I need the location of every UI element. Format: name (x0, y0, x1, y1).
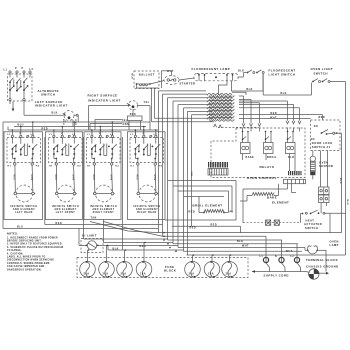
wire right light bottom into box (132, 109, 134, 116)
surface element R1 (LEFT REAR) (14, 185, 36, 202)
surface element R3 (RIGHT FRONT) (93, 185, 115, 202)
wire oven light switch to right edge (330, 82, 346, 256)
wire RED feeder bus y130 (8, 129, 159, 131)
svg-text:H2: H2 (77, 165, 81, 167)
svg-text:OVEN: OVEN (330, 239, 339, 243)
svg-text:SENSOR: SENSOR (319, 164, 333, 168)
wire lamp to switch (238, 73, 246, 78)
svg-text:RED: RED (54, 175, 56, 181)
oven control board dashed outline (211, 128, 305, 178)
wire RED to door lock (239, 115, 323, 120)
svg-text:P: P (22, 68, 24, 70)
svg-text:AND ELEMENT: AND ELEMENT (13, 208, 35, 211)
svg-text:RED: RED (211, 224, 218, 227)
wire bus y232.6 (159, 232, 342, 234)
wire harness verticals (8 conductors) (159, 91, 192, 251)
svg-text:BLU: BLU (17, 226, 23, 229)
svg-text:RED: RED (92, 175, 94, 181)
svg-text:BLU: BLU (62, 119, 64, 125)
ballast T1 (134, 71, 159, 89)
svg-text:L1: L1 (260, 256, 264, 258)
wires SW1 to element (15, 165, 33, 192)
svg-text:DOOR LOCK: DOOR LOCK (312, 141, 333, 145)
svg-text:DLB: DLB (288, 156, 294, 159)
svg-text:30A: 30A (83, 273, 89, 276)
svg-text:L2: L2 (291, 256, 295, 258)
wire switch loop rectangle (232, 75, 264, 92)
wire right light left lead (89, 106, 130, 131)
svg-text:H2: H2 (36, 165, 40, 167)
wire bus y246 (hi-limit) (108, 244, 178, 246)
connector P2 harness plug (208, 162, 228, 175)
wire ground arrow right (319, 272, 329, 275)
svg-text:CONTROLS. WIRING PROBLEMS: CONTROLS. WIRING PROBLEMS (7, 263, 50, 265)
wire twisted-bundle lattice (harness reordering) (207, 94, 234, 122)
wires SW4 to element (138, 165, 156, 192)
wire taps from feeder buses to infinite switch terminals (12, 121, 145, 135)
svg-text:3. SCHEMATIC PLEASE RETURN DIA: 3. SCHEMATIC PLEASE RETURN DIAGRAM (7, 246, 63, 249)
svg-text:BEFORE SERVICING UNIT.: BEFORE SERVICING UNIT. (7, 241, 42, 243)
label wire colors unit 1 (12, 175, 32, 181)
surface element R4 (RIGHT REAR) (137, 185, 159, 202)
wire bus y247.5 (178, 248, 305, 251)
svg-text:HEAT: HEAT (306, 218, 315, 222)
svg-text:DANGEROUS OPERATION.: DANGEROUS OPERATION. (7, 268, 42, 271)
svg-text:LABEL ALL WIRES PRIOR TO: LABEL ALL WIRES PRIOR TO (7, 256, 46, 259)
wire oven lamp right lead (317, 250, 326, 271)
wire starter to lamp (179, 78, 194, 80)
enclosure box unit 3 (84, 132, 121, 220)
svg-text:L1: L1 (87, 134, 91, 136)
svg-text:RED: RED (12, 175, 14, 181)
starter E1 (164, 76, 179, 85)
wire heat switch to right edge (325, 213, 346, 232)
wire ballast to starter (150, 81, 164, 85)
svg-text:STARTER: STARTER (180, 82, 196, 86)
wire left light drops (65, 115, 78, 126)
wire bus y251.2 (184, 250, 303, 252)
lamp DS1 left surface indicator light (63, 111, 79, 121)
label wire colors unit 3 (92, 175, 112, 181)
wire fluorescent switch drop to BLK bus (263, 74, 311, 95)
svg-text:RED: RED (319, 116, 326, 119)
svg-text:1. DISCONNECT RANGE FROM POWER: 1. DISCONNECT RANGE FROM POWER (7, 236, 58, 239)
connector J2 on oven control (288, 171, 302, 175)
wire bus y239 (84, 238, 168, 240)
relays K1-K3 (BAKE, BROIL, DLB) (241, 131, 296, 160)
label heat actuated switch (304, 218, 322, 230)
wire oven sensor to terminal strip (312, 175, 314, 179)
svg-text:BROIL ELEMENT: BROIL ELEMENT (193, 203, 223, 207)
svg-text:BAKE: BAKE (246, 156, 255, 159)
wire drop x186.5 to bus (187, 220, 189, 255)
wire inter-unit drop x122.5 (122, 137, 124, 250)
svg-text:30A: 30A (225, 273, 231, 276)
infinite switch SW3 (RIGHT FRONT) (87, 133, 121, 168)
wire YEL stub y119.5 (95, 120, 122, 131)
wire lamp drop into harness (219, 81, 228, 95)
connector plug arrows into oven control (242, 121, 301, 127)
wire bus y255 (187, 254, 346, 256)
svg-text:OVEN CONTROL: OVEN CONTROL (247, 176, 277, 180)
resistor bake element (252, 193, 274, 196)
svg-text:RED: RED (135, 175, 137, 181)
svg-text:LIGHT SWITCH: LIGHT SWITCH (269, 72, 296, 76)
svg-text:AND ELEMENT: AND ELEMENT (54, 208, 76, 211)
lamp DS2 right surface indicator light (127, 101, 138, 110)
caption unit 2 (52, 206, 79, 214)
svg-text:YEL: YEL (144, 101, 150, 104)
chassis ground G1 symbol (309, 269, 319, 279)
wire supply to ground (306, 272, 310, 273)
switch S5 heat actuated switch contacts (302, 210, 325, 214)
wire right light right lead (137, 106, 150, 131)
svg-text:LEFT FRONT: LEFT FRONT (56, 212, 76, 214)
connector block (door lock relay contacts) (319, 187, 330, 203)
label wire colors unit 2 (54, 175, 74, 181)
svg-text:P: P (20, 133, 22, 135)
lamp DS4 oven lamp (307, 246, 318, 254)
wire inter-unit drop x83.5 (83, 137, 85, 239)
svg-text:NC: NC (311, 139, 315, 141)
svg-text:L1: L1 (49, 134, 53, 136)
svg-text:N: N (275, 256, 277, 258)
label OVEN LAMP (330, 239, 339, 247)
svg-text:ORN: ORN (30, 175, 32, 181)
wire feeder bus y126.5 (14, 126, 146, 128)
wire slant unit3b to bus (104, 222, 163, 237)
svg-text:INFINITE SWITCH: INFINITE SWITCH (10, 206, 37, 208)
wire hi-limit left lead (79, 229, 86, 246)
svg-text:ORN: ORN (123, 123, 130, 126)
switch S1 'alternate switch' assembly with terminals L1/P/P/L2 (4, 68, 34, 101)
wire ballast left lead down (136, 84, 138, 88)
wire bus y250 BLK (108, 249, 184, 251)
wire junction box drops (129, 121, 141, 130)
wire to oven light switch (311, 83, 313, 96)
svg-text:H1: H1 (49, 165, 53, 167)
svg-text:RIGHT REAR: RIGHT REAR (137, 211, 157, 214)
svg-text:(B): (B) (229, 211, 234, 213)
svg-text:BLK: BLK (281, 92, 287, 95)
wire WHT harness run (239, 117, 311, 119)
svg-text:BLK: BLK (52, 111, 58, 114)
wires SW3 to element (94, 165, 112, 192)
wires under relays (243, 154, 296, 172)
enclosure box unit 2 (46, 132, 83, 220)
svg-text:TERMINAL BLOCK: TERMINAL BLOCK (306, 258, 338, 262)
svg-text:20A: 20A (120, 273, 126, 276)
svg-text:CHASSIS GROUND: CHASSIS GROUND (306, 264, 339, 268)
svg-text:BLK: BLK (238, 70, 244, 73)
svg-text:BLK: BLK (131, 74, 133, 80)
fluorescent lamp DS3 tube (194, 74, 238, 81)
svg-text:2. REFER ONLY TO FEATURES EQUI: 2. REFER ONLY TO FEATURES EQUIPPED. (7, 243, 63, 246)
switch S3 oven light switch contacts (312, 79, 330, 83)
label FUSE BLOCK (164, 265, 176, 273)
svg-text:L1: L1 (7, 134, 11, 136)
svg-text:RED: RED (271, 112, 278, 115)
svg-text:HI LIMIT: HI LIMIT (82, 234, 97, 238)
svg-text:INFINITE SWITCH: INFINITE SWITCH (90, 206, 117, 208)
svg-text:SWITCH #1: SWITCH #1 (312, 145, 331, 149)
infinite switch SW1 (LEFT REAR) (7, 133, 41, 168)
wire left edge drop (2, 122, 4, 229)
svg-text:BLK: BLK (346, 200, 348, 206)
svg-text:WHT: WHT (167, 70, 174, 73)
label alternate switch (38, 89, 60, 97)
arrow to range (alternate switch output) (12, 102, 15, 112)
wire: alt-switch to left indicator light (24, 101, 63, 115)
svg-text:RED: RED (42, 127, 49, 130)
wire inter-unit drop x44.8 (44, 137, 46, 225)
wire ballast feed y88 (137, 87, 159, 89)
svg-text:CAN CAUSE IMPROPER AND: CAN CAUSE IMPROPER AND (7, 265, 45, 268)
label right surface indicator light (88, 94, 121, 103)
svg-text:AND ELEMENT: AND ELEMENT (92, 208, 114, 211)
infinite switch SW4 (RIGHT REAR) (130, 133, 164, 168)
svg-text:RED: RED (140, 245, 147, 248)
svg-text:OVEN LIGHT: OVEN LIGHT (311, 67, 334, 71)
svg-text:RED: RED (190, 226, 197, 229)
svg-text:P: P (15, 68, 17, 70)
wire door lock to connector block (321, 151, 328, 188)
svg-text:FLUORESCENT LAMP: FLUORESCENT LAMP (192, 67, 231, 71)
svg-text:BLK: BLK (339, 178, 341, 184)
wire door lock C to right drop (335, 133, 342, 232)
infinite switch SW2 (LEFT FRONT) (49, 133, 83, 168)
svg-text:LEFT REAR: LEFT REAR (15, 211, 33, 214)
svg-text:RELAYS: RELAYS (260, 165, 275, 169)
label OVEN SENSOR (319, 160, 333, 168)
wire BLU feeder bus y122 (3, 121, 150, 123)
svg-text:YEL: YEL (122, 119, 128, 122)
wires from oven control terminal strip down (243, 184, 296, 223)
wire drop x103.5 (103, 220, 105, 243)
enclosure box unit 1 (4, 132, 43, 220)
wire oven lamp left lead (305, 249, 308, 251)
wire connector block down (321, 203, 326, 214)
wire heat switch left lead (301, 214, 302, 223)
svg-text:BROIL: BROIL (267, 156, 277, 159)
svg-text:BLK: BLK (237, 240, 243, 243)
svg-text:INDICATOR LIGHT: INDICATOR LIGHT (35, 104, 68, 108)
svg-text:INFINITE SWITCH: INFINITE SWITCH (133, 206, 160, 208)
svg-text:P: P (61, 133, 63, 135)
wire oven sensor top to door lock area (312, 151, 314, 157)
terminal strip TB2 under oven control (284, 179, 306, 183)
svg-text:SWITCH: SWITCH (314, 71, 328, 75)
surface element R2 (LEFT FRONT) (55, 185, 77, 202)
inline connectors on heat switch run (266, 220, 280, 225)
svg-text:LAMP: LAMP (330, 243, 339, 247)
svg-text:H1: H1 (8, 165, 12, 167)
svg-text:L1: L1 (4, 69, 8, 72)
wire bus y240 (168, 240, 283, 257)
wire dashed run to heat switch (243, 222, 301, 224)
svg-text:NOTES:: NOTES: (7, 233, 18, 236)
svg-text:20A: 20A (208, 273, 214, 276)
svg-text:H1: H1 (87, 165, 91, 167)
junction dots on buses (163, 232, 177, 252)
svg-text:P: P (143, 133, 145, 135)
wire hi-limit right lead (98, 244, 108, 246)
svg-text:RED: RED (56, 222, 63, 225)
svg-text:RED: RED (189, 210, 196, 213)
wires plug arrows into control box (243, 128, 300, 132)
svg-text:ORN: ORN (153, 175, 155, 181)
svg-text:SWITCH: SWITCH (305, 226, 318, 230)
wire slant unit3 to bus (90, 222, 159, 233)
wire dashed run from lattice to control (218, 126, 259, 128)
wire lattice top-right exit (232, 92, 246, 95)
svg-text:NO: NO (314, 126, 318, 128)
svg-text:SUPPLY CORD: SUPPLY CORD (264, 274, 289, 278)
wire RED bus y224.5 (45, 224, 163, 226)
svg-text:RIGHT FRONT: RIGHT FRONT (93, 212, 114, 214)
svg-text:30A: 30A (188, 273, 194, 276)
svg-text:YEL: YEL (190, 172, 192, 178)
supply cord wires (252, 263, 306, 273)
switch S2 fluorescent light switch contacts (238, 70, 264, 74)
resistor broil element (199, 210, 229, 214)
label fluorescent light switch (269, 69, 296, 77)
svg-text:SWITCH: SWITCH (41, 92, 55, 96)
wires SW2 to element (56, 165, 74, 192)
wire BLU bus y228.5 (3, 228, 159, 230)
svg-text:P: P (99, 133, 101, 135)
wire bake element leads (240, 184, 279, 201)
wire run y220 harness (165, 219, 236, 221)
svg-text:BALLAST: BALLAST (139, 73, 155, 77)
svg-text:L1: L1 (130, 134, 134, 136)
thermostat S6 hi-limit (81, 239, 103, 253)
svg-text:20A: 20A (102, 273, 108, 276)
svg-text:15A: 15A (140, 273, 146, 276)
connector arrows under lattice (214, 124, 222, 128)
wire starter top WHT loop (162, 71, 172, 88)
wire bus y236.3 (163, 236, 267, 256)
label BAKE ELEMENT (267, 195, 289, 204)
fuse block dashed outline (77, 258, 248, 278)
wire taps right cluster to units 3-4 (91, 129, 157, 135)
svg-text:BLOCK: BLOCK (164, 269, 176, 273)
label oven light switch (311, 67, 334, 75)
wire ORN stub y123.5 (90, 124, 122, 131)
svg-text:AND ELEMENT: AND ELEMENT (136, 208, 158, 211)
svg-text:TO RANGE.: TO RANGE. (7, 249, 22, 252)
svg-text:INFINITE SWITCH: INFINITE SWITCH (52, 206, 79, 208)
notes text block (7, 233, 63, 272)
switch S4 door lock switch #1 (311, 120, 341, 151)
svg-text:ELEMENT: ELEMENT (272, 200, 289, 204)
wire bus y242.5 (104, 242, 174, 244)
svg-text:DISCONNECTION WHEN SERVICING: DISCONNECTION WHEN SERVICING (7, 260, 54, 262)
wires buses to fuse tops (88, 242, 232, 262)
caption unit 1 (10, 206, 37, 214)
enclosure box unit 4 (128, 132, 166, 220)
svg-text:H1: H1 (131, 165, 135, 167)
svg-text:RIGHT SURFACE: RIGHT SURFACE (88, 94, 118, 98)
wires lattice to oven control plug (239, 96, 300, 123)
wires nested runs to broil element (168, 181, 236, 221)
svg-text:ORN: ORN (110, 175, 112, 181)
caption unit 4 (133, 206, 160, 214)
wire RED run y226.3 (172, 226, 241, 232)
svg-text:BLK: BLK (247, 88, 253, 91)
small junction box right cluster (128, 116, 143, 121)
wire harness horizontal cascade runs (152, 88, 215, 122)
svg-text:ORN: ORN (72, 175, 74, 181)
svg-text:ACTUATED: ACTUATED (304, 222, 322, 226)
svg-text:H2: H2 (115, 165, 119, 167)
label left surface indicator light (35, 100, 68, 108)
svg-text:RED: RED (74, 120, 76, 126)
wire bus y243.7 (173, 244, 298, 257)
svg-text:4. CAUTION:: 4. CAUTION: (7, 252, 24, 255)
terminal block TB1 terminals L1/N/L2 (260, 256, 300, 264)
wire drop x108 (107, 245, 109, 250)
svg-text:H2: H2 (159, 165, 163, 167)
fuses F1-F7 with ratings (80, 261, 238, 278)
svg-text:INDICATOR LIGHT: INDICATOR LIGHT (88, 98, 121, 102)
caption unit 3 (90, 206, 117, 214)
oven sensor RT1 (310, 156, 315, 175)
label wire colors unit 4 (135, 175, 155, 181)
wire alt switch L1 drop (8, 101, 10, 130)
svg-text:BAKE: BAKE (267, 195, 277, 199)
